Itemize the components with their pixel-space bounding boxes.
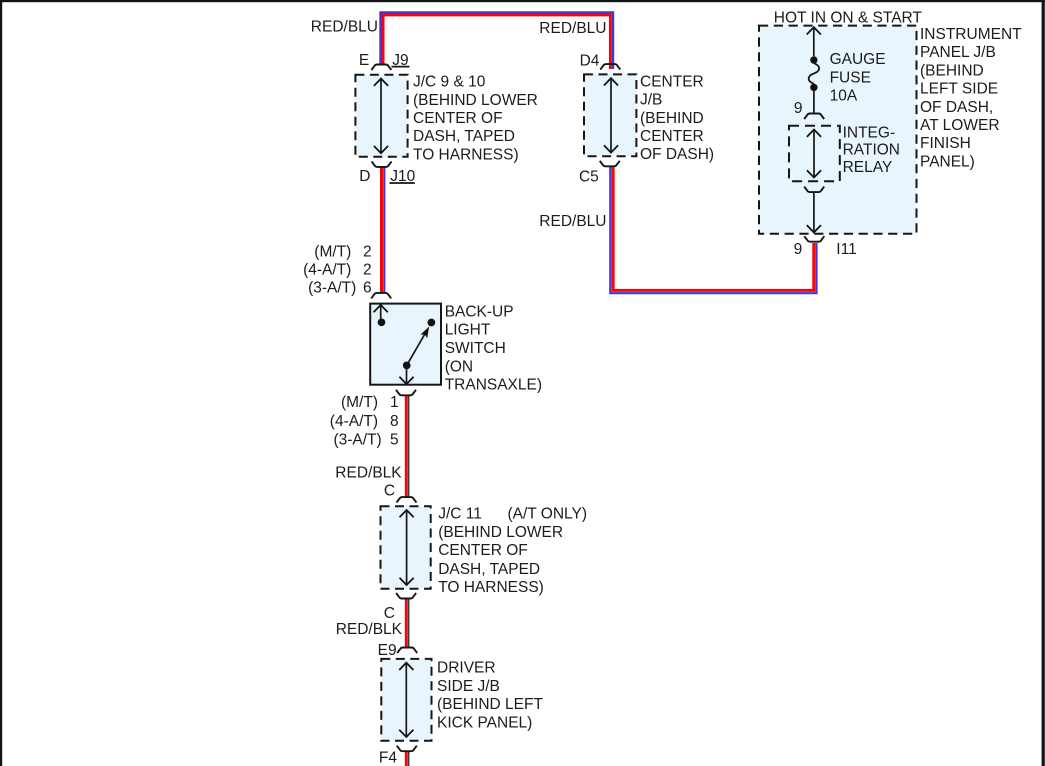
- svg-text:(M/T): (M/T): [314, 243, 351, 260]
- svg-text:E: E: [359, 52, 369, 69]
- svg-text:AT LOWER: AT LOWER: [920, 117, 1000, 134]
- switch movable contact arm: [407, 332, 426, 365]
- junction connector J/C 11 box: [381, 506, 431, 589]
- svg-text:9: 9: [794, 100, 803, 117]
- svg-text:RATION: RATION: [843, 142, 900, 159]
- svg-text:DASH, TAPED: DASH, TAPED: [413, 128, 515, 145]
- svg-text:(BEHIND LOWER: (BEHIND LOWER: [438, 524, 563, 541]
- connector male arc above back-up light switch: [371, 293, 391, 299]
- svg-text:CENTER: CENTER: [640, 73, 704, 90]
- connector pin F4 female arc: [397, 746, 417, 752]
- svg-text:D: D: [359, 168, 370, 185]
- fuse GAUGE 10A top terminal dot: [810, 56, 817, 63]
- svg-text:D4: D4: [580, 52, 600, 69]
- svg-text:OF DASH): OF DASH): [640, 146, 714, 163]
- label INSTRUMENT PANEL J/B description: [920, 26, 1022, 170]
- svg-text:INSTRUMENT: INSTRUMENT: [920, 26, 1022, 43]
- svg-text:LEFT SIDE: LEFT SIDE: [920, 81, 998, 98]
- svg-text:(BEHIND: (BEHIND: [640, 110, 704, 127]
- svg-text:1: 1: [390, 394, 399, 411]
- svg-text:2: 2: [363, 243, 372, 260]
- connector female arc below switch: [396, 390, 416, 396]
- wire RED/BLU segment J10 to back-up light switch (red): [380, 167, 383, 293]
- svg-text:TO HARNESS): TO HARNESS): [413, 146, 519, 163]
- svg-text:2: 2: [363, 262, 372, 279]
- svg-text:(ON: (ON: [445, 358, 473, 375]
- svg-text:C: C: [384, 482, 395, 499]
- svg-text:C: C: [384, 605, 395, 622]
- svg-text:HOT IN ON & START: HOT IN ON & START: [774, 9, 923, 26]
- fuse feed arrow to HOT IN ON & START: [813, 27, 815, 56]
- back-up light switch box: [370, 304, 441, 385]
- svg-text:DASH, TAPED: DASH, TAPED: [438, 561, 540, 578]
- connector pin 9 / I11 female arc: [804, 236, 824, 242]
- svg-text:8: 8: [390, 413, 399, 430]
- switch output arrow down: [406, 365, 408, 384]
- svg-text:(4-A/T): (4-A/T): [330, 413, 378, 430]
- svg-text:RED/BLK: RED/BLK: [336, 621, 403, 638]
- junction block DRIVER SIDE J/B box: [381, 659, 431, 741]
- svg-text:SIDE J/B: SIDE J/B: [437, 678, 500, 695]
- svg-text:PANEL): PANEL): [920, 153, 975, 170]
- label GAUGE FUSE 10A: [830, 51, 886, 104]
- svg-text:J/B: J/B: [640, 92, 662, 109]
- instrument panel J/B box: [759, 26, 917, 234]
- svg-text:RED/BLU: RED/BLU: [311, 18, 378, 35]
- svg-text:DRIVER: DRIVER: [437, 660, 496, 677]
- svg-text:PANEL J/B: PANEL J/B: [920, 44, 996, 61]
- label BACK-UP LIGHT SWITCH description: [445, 303, 542, 393]
- svg-text:10A: 10A: [830, 88, 858, 105]
- switch input arrow: [380, 305, 382, 322]
- wire RED/BLK segment J/C 11 to E9 (red): [405, 599, 408, 647]
- svg-text:5: 5: [390, 432, 399, 449]
- integration relay box: [789, 126, 840, 182]
- svg-text:RED/BLK: RED/BLK: [335, 464, 402, 481]
- connector pin C male arc: [397, 497, 417, 503]
- fuse GAUGE 10A bottom terminal dot: [810, 84, 817, 91]
- wire RED/BLU segment J9 to D4 (blue stripe): [380, 12, 613, 69]
- svg-text:(BEHIND: (BEHIND: [920, 62, 984, 79]
- connector label J9: [392, 52, 410, 69]
- svg-text:C5: C5: [579, 168, 599, 185]
- label DRIVER SIDE J/B description: [437, 660, 543, 732]
- wire RED/BLK segment J/C 11 to E9 (black stripe): [408, 599, 410, 647]
- svg-text:LIGHT: LIGHT: [445, 322, 491, 339]
- svg-text:(3-A/T): (3-A/T): [308, 279, 356, 296]
- wire RED/BLK segment switch to J/C 11 (black stripe): [408, 396, 410, 498]
- connector pin E / J9 male arc: [371, 65, 391, 71]
- wire RED/BLU segment J10 to back-up light switch (blue stripe): [383, 167, 385, 293]
- svg-text:9: 9: [794, 241, 803, 258]
- wire RED/BLK segment switch to J/C 11 (red): [405, 396, 408, 498]
- svg-text:(BEHIND LOWER: (BEHIND LOWER: [413, 92, 538, 109]
- wire RED/BLU segment J9 to D4 (red): [383, 15, 610, 69]
- pin variant labels (M/T) 1 (4-A/T) 8 (3-A/T) 5: [330, 394, 399, 449]
- svg-text:TO HARNESS): TO HARNESS): [438, 579, 544, 596]
- svg-text:FUSE: FUSE: [830, 69, 871, 86]
- connector pin C5 female arc: [600, 161, 620, 167]
- label CENTER J/B description: [640, 73, 714, 163]
- label J/C 11 description: [438, 506, 587, 597]
- svg-text:KICK PANEL): KICK PANEL): [437, 714, 532, 731]
- junction block CENTER J/B box: [584, 74, 636, 156]
- svg-text:F4: F4: [379, 750, 397, 766]
- svg-text:6: 6: [363, 279, 372, 296]
- wire RED/BLK segment below F4 (black stripe): [408, 751, 410, 766]
- svg-text:TRANSAXLE): TRANSAXLE): [445, 377, 542, 394]
- connector female arc below relay: [804, 187, 824, 193]
- svg-text:SWITCH: SWITCH: [445, 340, 506, 357]
- wire RED/BLU segment C5 to I11 (blue stripe): [610, 167, 816, 293]
- svg-text:(BEHIND LEFT: (BEHIND LEFT: [437, 696, 543, 713]
- svg-text:(4-A/T): (4-A/T): [303, 262, 351, 279]
- switch arm arrowhead: [421, 326, 430, 338]
- wire relay to instrument panel J/B output with arrow: [813, 192, 815, 232]
- label INTEGRATION RELAY: [843, 124, 900, 175]
- switch output contact dot: [428, 319, 436, 327]
- wire RED/BLK segment below F4 (red): [405, 751, 408, 766]
- junction block J/C 9 & 10 box: [355, 75, 407, 157]
- label J/C 9 & 10 description: [413, 74, 538, 164]
- svg-text:(A/T ONLY): (A/T ONLY): [508, 506, 588, 523]
- svg-text:FINISH: FINISH: [920, 135, 971, 152]
- wire RED/BLU segment C5 to I11 (red): [613, 167, 814, 290]
- svg-text:GAUGE: GAUGE: [830, 51, 886, 68]
- fuse GAUGE 10A element: [809, 63, 820, 84]
- svg-text:J/C 9 & 10: J/C 9 & 10: [413, 74, 486, 91]
- svg-text:(M/T): (M/T): [341, 394, 378, 411]
- connector label J10: [390, 168, 416, 185]
- connector pin D / J10 female arc: [372, 161, 392, 167]
- svg-text:CENTER OF: CENTER OF: [413, 110, 503, 127]
- svg-text:RED/BLU: RED/BLU: [539, 20, 606, 37]
- svg-text:INTEG-: INTEG-: [843, 124, 896, 141]
- svg-text:CENTER: CENTER: [640, 128, 704, 145]
- connector pin 9 male arc: [804, 114, 824, 120]
- wire fuse to relay pin 9: [813, 91, 815, 113]
- connector pin D4 male arc: [600, 64, 620, 70]
- svg-text:RED/BLU: RED/BLU: [539, 213, 606, 230]
- pin variant labels (M/T) 2 (4-A/T) 2 (3-A/T) 6: [303, 243, 372, 296]
- svg-text:RELAY: RELAY: [843, 159, 893, 176]
- svg-text:I11: I11: [836, 241, 856, 258]
- connector pin C female arc below J/C 11: [396, 593, 416, 599]
- connector pin E9 male arc: [397, 648, 417, 654]
- svg-text:E9: E9: [378, 642, 397, 659]
- svg-text:OF DASH,: OF DASH,: [920, 99, 993, 116]
- svg-text:BACK-UP: BACK-UP: [445, 303, 514, 320]
- switch input contact dot: [378, 318, 386, 326]
- svg-text:CENTER OF: CENTER OF: [438, 542, 528, 559]
- svg-text:J/C 11: J/C 11: [438, 506, 482, 523]
- switch common contact dot: [403, 362, 411, 370]
- svg-text:(3-A/T): (3-A/T): [333, 432, 381, 449]
